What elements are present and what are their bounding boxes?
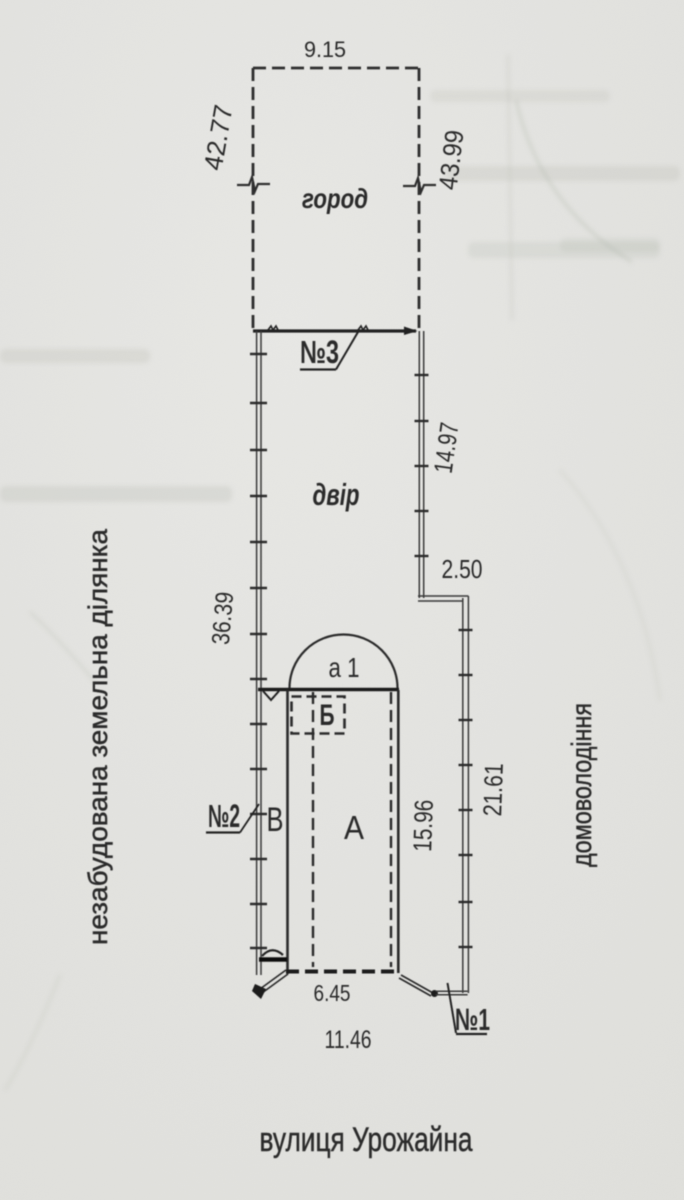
- right fence double line lower: [463, 596, 469, 993]
- faint stamp arc right: [560, 470, 660, 700]
- svg-text:№1: №1: [455, 1002, 490, 1037]
- svg-text:А: А: [344, 809, 364, 846]
- dashed boundary город rectangle: [253, 68, 419, 330]
- svg-text:вулиця Урожайна: вулиця Урожайна: [260, 1121, 473, 1159]
- break mark right: [403, 178, 436, 192]
- junction dot: [431, 990, 438, 997]
- svg-text:9.15: 9.15: [304, 37, 346, 62]
- fence tick w2: [358, 326, 368, 330]
- break mark left: [237, 177, 270, 191]
- room Б dashed box: [292, 697, 345, 734]
- bleed-through smudge right: [560, 238, 660, 252]
- inner dashed right: [390, 692, 392, 967]
- faint crease bottom-left: [5, 975, 60, 1090]
- building A right wall: [397, 690, 400, 973]
- gate bar bottom-left: [259, 957, 287, 962]
- building A bottom dashed: [286, 970, 399, 974]
- svg-text:2.50: 2.50: [442, 554, 483, 584]
- svg-text:11.46: 11.46: [325, 1026, 372, 1054]
- arch a1: [290, 635, 398, 689]
- svg-text:36.39: 36.39: [207, 591, 240, 646]
- svg-text:6.45: 6.45: [314, 980, 351, 1006]
- svg-text:15.96: 15.96: [407, 799, 439, 852]
- bleed-through text row left 2: [0, 486, 232, 502]
- svg-text:город: город: [302, 183, 368, 214]
- building A left wall: [286, 690, 289, 974]
- left fence double line: [257, 331, 261, 975]
- inner dashed left: [312, 692, 314, 967]
- faint stamp arc top-right: [516, 100, 632, 262]
- callout №3: [300, 332, 358, 370]
- bleed-through text row top-right 2: [468, 242, 660, 258]
- gate curve: [262, 950, 283, 956]
- svg-text:№2: №2: [208, 798, 240, 834]
- bottom-right horizontal double: [436, 991, 468, 995]
- left fence ticks: [250, 354, 267, 948]
- top fence line: [253, 329, 416, 332]
- bleed-through text row left 1: [0, 349, 150, 363]
- fence arrow end: [404, 327, 418, 336]
- svg-text:незабудована земельна ділянк: незабудована земельна ділянка: [83, 528, 113, 945]
- right fence ticks upper: [415, 375, 429, 556]
- main drawing: [83, 37, 597, 1159]
- right fence ticks lower: [459, 630, 473, 947]
- blob bottom-left: [252, 984, 266, 999]
- right fence double line upper: [419, 331, 423, 598]
- fence jog horizontal: [418, 596, 468, 601]
- diagonal double bottom-right: [399, 975, 433, 996]
- svg-text:В: В: [267, 801, 284, 839]
- gate notch V: [263, 691, 279, 700]
- svg-text:двір: двір: [313, 477, 360, 512]
- faint crease left: [30, 612, 95, 682]
- faint vertical crease: [508, 55, 512, 320]
- svg-text:21.61: 21.61: [477, 763, 509, 817]
- diagonal double bottom-left: [260, 970, 288, 993]
- svg-text:Б: Б: [320, 699, 335, 732]
- svg-text:домоволодіння: домоволодіння: [566, 703, 597, 867]
- callout №2: [206, 798, 259, 834]
- fence tick w1: [268, 326, 278, 330]
- bleed-through text row top-right 1: [445, 166, 680, 181]
- building top line: [258, 688, 399, 691]
- callout №1: [448, 983, 491, 1037]
- svg-text:а 1: а 1: [329, 652, 360, 683]
- bleed-through text row top: [430, 90, 610, 102]
- svg-text:№3: №3: [300, 334, 339, 370]
